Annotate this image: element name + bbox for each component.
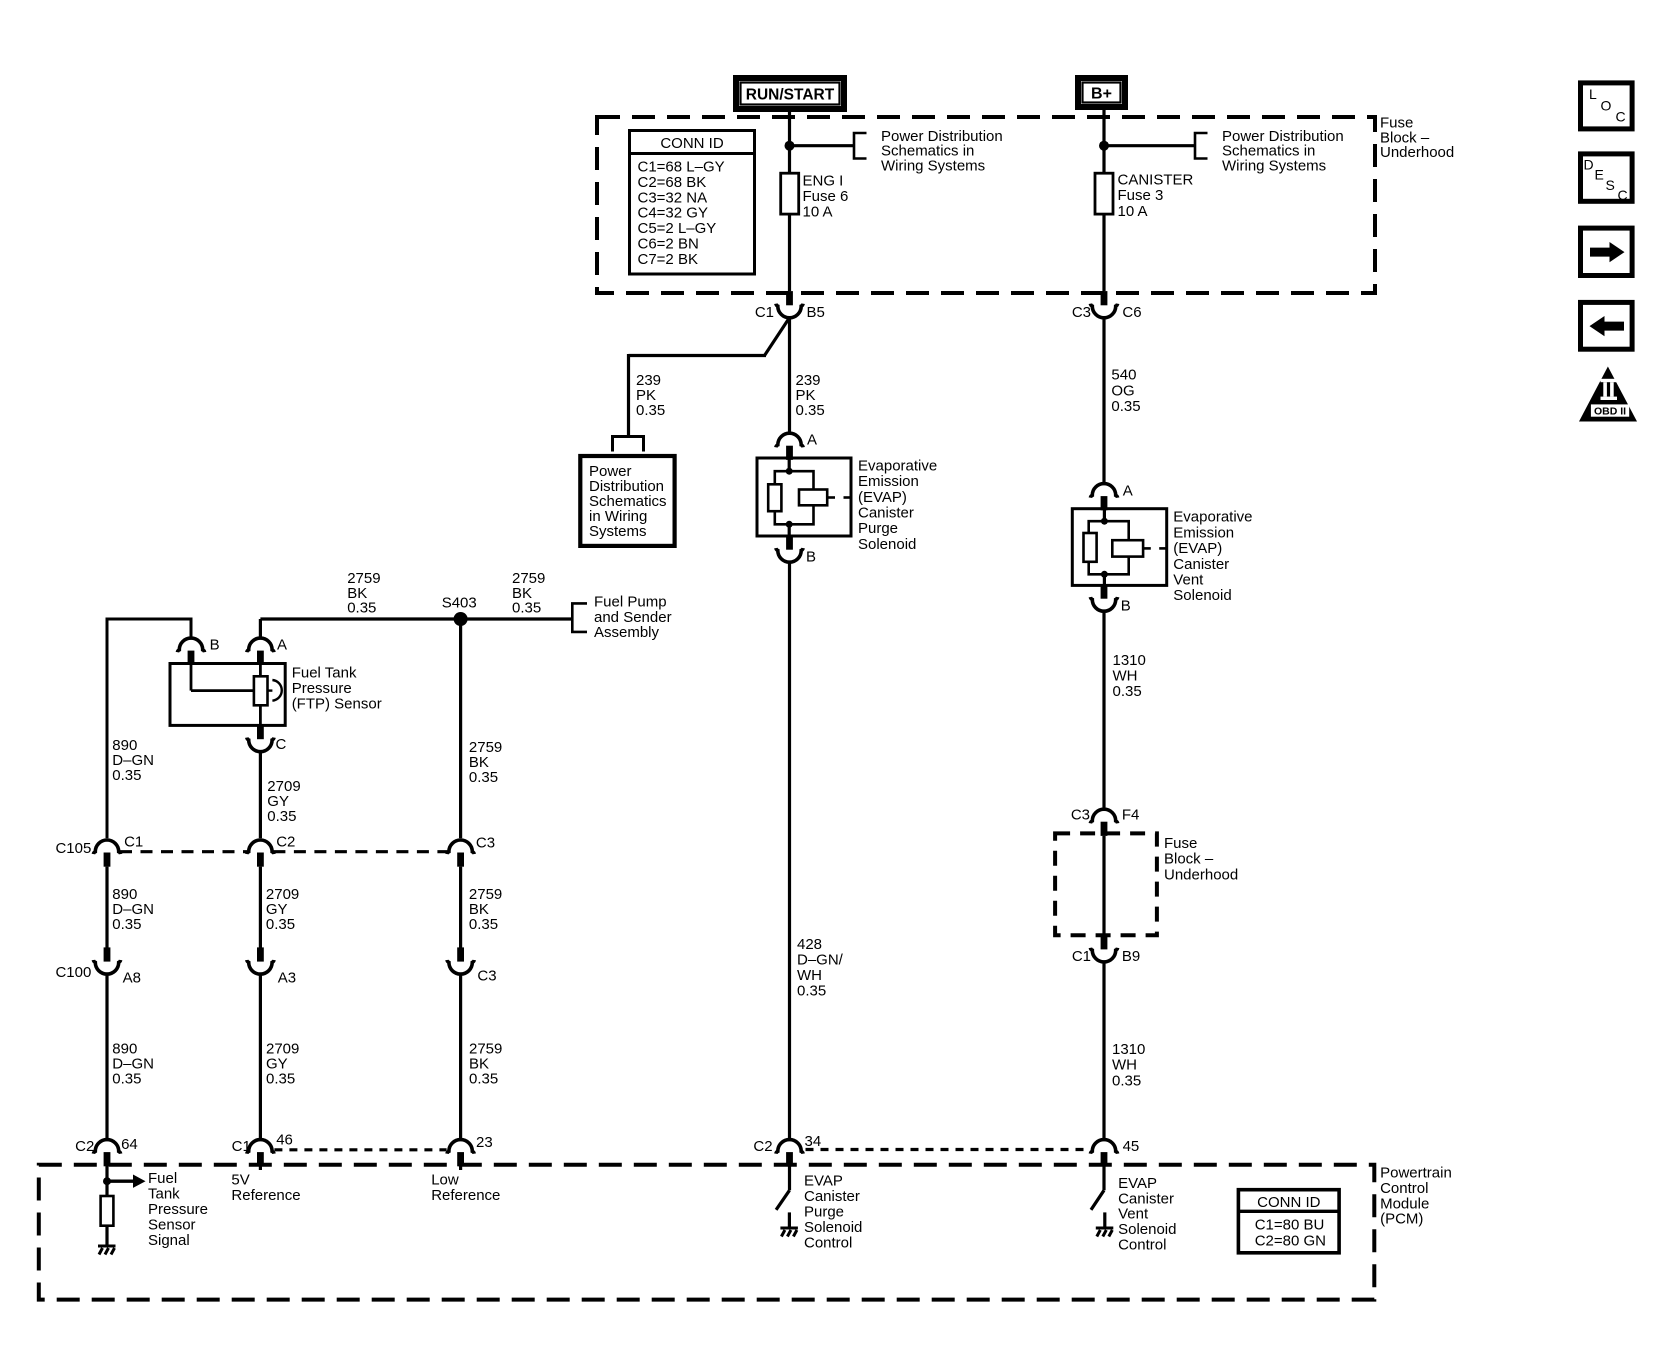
svg-text:D: D bbox=[1584, 157, 1594, 173]
svg-text:Block –: Block – bbox=[1164, 851, 1214, 868]
svg-text:Solenoid: Solenoid bbox=[804, 1219, 862, 1236]
svg-text:0.35: 0.35 bbox=[1112, 1072, 1141, 1089]
svg-text:Tank: Tank bbox=[148, 1186, 180, 1203]
svg-text:Systems: Systems bbox=[589, 523, 647, 540]
svg-text:0.35: 0.35 bbox=[469, 1071, 498, 1088]
svg-text:C1: C1 bbox=[1072, 948, 1091, 965]
svg-text:C3: C3 bbox=[476, 834, 495, 851]
svg-text:A8: A8 bbox=[123, 969, 141, 986]
svg-text:A: A bbox=[1123, 483, 1133, 500]
svg-text:0.35: 0.35 bbox=[469, 769, 498, 786]
svg-text:Evaporative: Evaporative bbox=[1173, 509, 1252, 526]
svg-text:Emission: Emission bbox=[1173, 524, 1234, 541]
svg-text:Solenoid: Solenoid bbox=[858, 536, 916, 553]
svg-text:0.35: 0.35 bbox=[266, 1071, 295, 1088]
svg-text:C2=80 GN: C2=80 GN bbox=[1255, 1232, 1326, 1249]
svg-text:CANISTER: CANISTER bbox=[1118, 172, 1194, 189]
svg-text:Underhood: Underhood bbox=[1164, 866, 1238, 883]
svg-text:Vent: Vent bbox=[1173, 572, 1204, 589]
svg-text:ENG I: ENG I bbox=[803, 173, 844, 190]
svg-text:L: L bbox=[1589, 86, 1597, 102]
svg-text:1310: 1310 bbox=[1113, 652, 1146, 669]
svg-text:C1: C1 bbox=[755, 304, 774, 321]
svg-text:C1: C1 bbox=[124, 833, 143, 850]
svg-text:C1: C1 bbox=[232, 1138, 251, 1155]
svg-text:C: C bbox=[276, 736, 287, 753]
svg-text:0.35: 0.35 bbox=[267, 808, 296, 825]
svg-text:0.35: 0.35 bbox=[1113, 683, 1142, 700]
svg-text:B: B bbox=[1121, 598, 1131, 615]
svg-text:0.35: 0.35 bbox=[347, 600, 376, 617]
svg-text:Purge: Purge bbox=[804, 1203, 844, 1220]
svg-text:0.35: 0.35 bbox=[796, 402, 825, 419]
svg-text:E: E bbox=[1595, 166, 1604, 182]
svg-text:OBD II: OBD II bbox=[1594, 405, 1626, 417]
svg-text:C3: C3 bbox=[1072, 304, 1091, 321]
svg-text:OG: OG bbox=[1111, 382, 1134, 399]
svg-text:0.35: 0.35 bbox=[469, 916, 498, 933]
svg-text:10 A: 10 A bbox=[803, 204, 833, 221]
svg-text:0.35: 0.35 bbox=[266, 916, 295, 933]
svg-text:Canister: Canister bbox=[858, 505, 914, 522]
svg-text:(PCM): (PCM) bbox=[1380, 1211, 1423, 1228]
svg-text:Pressure: Pressure bbox=[148, 1201, 208, 1218]
svg-text:C2: C2 bbox=[753, 1138, 772, 1155]
svg-text:CONN ID: CONN ID bbox=[660, 135, 724, 152]
svg-text:B+: B+ bbox=[1091, 85, 1112, 102]
svg-text:0.35: 0.35 bbox=[112, 767, 141, 784]
svg-text:B: B bbox=[210, 637, 220, 654]
svg-text:Assembly: Assembly bbox=[594, 624, 660, 641]
svg-text:(EVAP): (EVAP) bbox=[858, 489, 907, 506]
svg-text:428: 428 bbox=[797, 936, 822, 953]
svg-text:Purge: Purge bbox=[858, 520, 898, 537]
svg-text:Underhood: Underhood bbox=[1380, 144, 1454, 161]
svg-text:Reference: Reference bbox=[231, 1187, 300, 1204]
svg-text:WH: WH bbox=[797, 967, 822, 984]
svg-text:Emission: Emission bbox=[858, 473, 919, 490]
svg-text:Fuel: Fuel bbox=[148, 1170, 177, 1187]
svg-text:(FTP) Sensor: (FTP) Sensor bbox=[292, 695, 382, 712]
svg-text:WH: WH bbox=[1113, 668, 1138, 685]
svg-text:46: 46 bbox=[276, 1131, 293, 1148]
svg-text:C: C bbox=[1616, 109, 1626, 125]
svg-text:B5: B5 bbox=[807, 304, 825, 321]
svg-text:C3: C3 bbox=[477, 967, 496, 984]
svg-text:A: A bbox=[277, 637, 287, 654]
svg-text:(EVAP): (EVAP) bbox=[1173, 540, 1222, 557]
svg-text:B: B bbox=[806, 549, 816, 566]
svg-text:WH: WH bbox=[1112, 1057, 1137, 1074]
svg-text:C100: C100 bbox=[55, 964, 91, 981]
svg-text:Solenoid: Solenoid bbox=[1173, 587, 1231, 604]
svg-text:C3: C3 bbox=[1071, 807, 1090, 824]
svg-text:540: 540 bbox=[1111, 367, 1136, 384]
svg-text:Control: Control bbox=[804, 1234, 852, 1251]
svg-text:C2: C2 bbox=[276, 833, 295, 850]
svg-text:23: 23 bbox=[476, 1134, 493, 1151]
svg-text:C: C bbox=[1618, 187, 1628, 203]
svg-text:Control: Control bbox=[1118, 1237, 1166, 1254]
svg-text:O: O bbox=[1601, 97, 1612, 113]
svg-text:C6: C6 bbox=[1122, 304, 1141, 321]
svg-text:0.35: 0.35 bbox=[512, 600, 541, 617]
svg-text:Wiring Systems: Wiring Systems bbox=[1222, 157, 1326, 174]
svg-text:Fuse 3: Fuse 3 bbox=[1118, 187, 1164, 204]
svg-text:0.35: 0.35 bbox=[112, 916, 141, 933]
svg-text:F4: F4 bbox=[1122, 807, 1140, 824]
svg-text:10 A: 10 A bbox=[1118, 203, 1148, 220]
svg-text:A: A bbox=[807, 432, 817, 449]
svg-text:Fuse 6: Fuse 6 bbox=[803, 188, 849, 205]
svg-text:RUN/START: RUN/START bbox=[746, 86, 835, 103]
svg-text:5V: 5V bbox=[231, 1172, 249, 1189]
svg-text:CONN ID: CONN ID bbox=[1257, 1194, 1321, 1211]
svg-text:B9: B9 bbox=[1122, 948, 1140, 965]
svg-text:34: 34 bbox=[805, 1133, 822, 1150]
svg-text:1310: 1310 bbox=[1112, 1041, 1145, 1058]
svg-text:Wiring Systems: Wiring Systems bbox=[881, 157, 985, 174]
svg-text:C2: C2 bbox=[75, 1138, 94, 1155]
svg-text:C7=2 BK: C7=2 BK bbox=[638, 251, 698, 268]
svg-text:0.35: 0.35 bbox=[112, 1071, 141, 1088]
svg-text:Signal: Signal bbox=[148, 1232, 190, 1249]
svg-text:Fuse: Fuse bbox=[1164, 835, 1197, 852]
svg-text:64: 64 bbox=[121, 1136, 138, 1153]
svg-text:Sensor: Sensor bbox=[148, 1217, 196, 1234]
svg-text:EVAP: EVAP bbox=[804, 1172, 843, 1189]
svg-text:A3: A3 bbox=[278, 969, 296, 986]
svg-text:0.35: 0.35 bbox=[1111, 398, 1140, 415]
svg-text:Canister: Canister bbox=[1173, 556, 1229, 573]
svg-text:0.35: 0.35 bbox=[797, 982, 826, 999]
svg-text:Evaporative: Evaporative bbox=[858, 457, 937, 474]
svg-text:Low: Low bbox=[431, 1172, 459, 1189]
svg-text:Canister: Canister bbox=[804, 1188, 860, 1205]
svg-text:45: 45 bbox=[1123, 1138, 1140, 1155]
svg-text:0.35: 0.35 bbox=[636, 402, 665, 419]
svg-text:C105: C105 bbox=[55, 840, 91, 857]
svg-text:C1=80 BU: C1=80 BU bbox=[1255, 1216, 1325, 1233]
svg-text:S403: S403 bbox=[442, 595, 477, 612]
svg-text:Reference: Reference bbox=[431, 1187, 500, 1204]
svg-text:D–GN/: D–GN/ bbox=[797, 951, 844, 968]
svg-text:S: S bbox=[1606, 177, 1615, 193]
